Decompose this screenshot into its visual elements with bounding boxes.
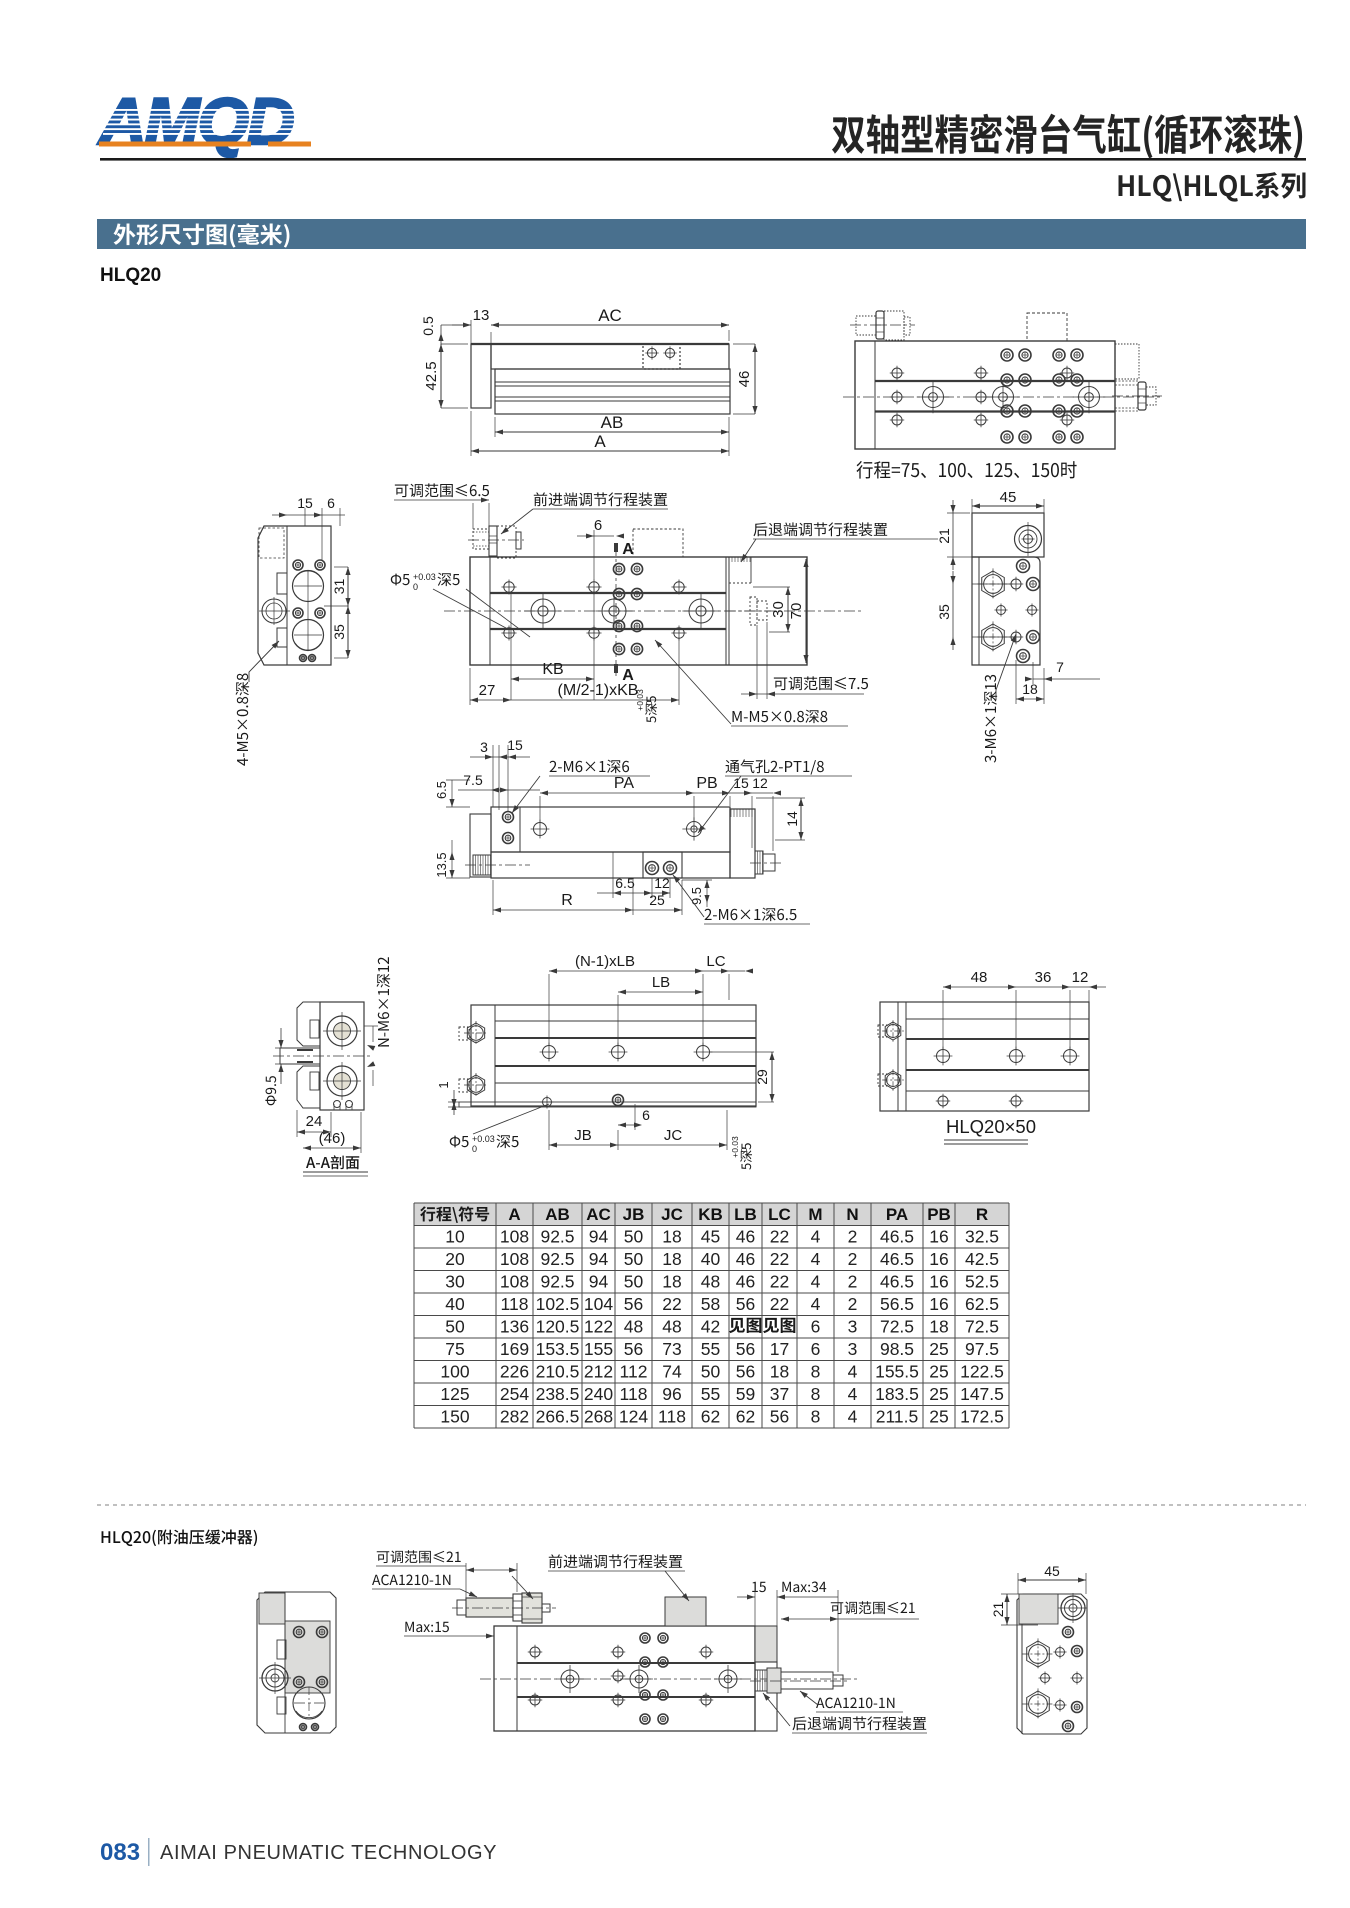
D2 socket screws bbox=[1001, 349, 1013, 361]
svg-text:73: 73 bbox=[662, 1339, 681, 1359]
D6 left rod bbox=[473, 855, 491, 875]
svg-text:40: 40 bbox=[701, 1249, 721, 1269]
D7 left upper guide bbox=[297, 1002, 320, 1046]
svg-text:18: 18 bbox=[929, 1317, 948, 1337]
svg-text:12: 12 bbox=[752, 775, 768, 791]
svg-text:LB: LB bbox=[652, 974, 670, 991]
svg-text:56: 56 bbox=[736, 1339, 755, 1359]
svg-text:29: 29 bbox=[754, 1069, 770, 1085]
svg-text:0: 0 bbox=[413, 582, 418, 592]
section bar text bbox=[114, 223, 290, 247]
svg-text:112: 112 bbox=[620, 1362, 648, 1382]
svg-text:46: 46 bbox=[736, 1249, 755, 1269]
svg-text:94: 94 bbox=[589, 1227, 609, 1247]
svg-text:21: 21 bbox=[936, 528, 952, 544]
D12 dim 21 bbox=[1006, 1594, 1008, 1625]
D8 screws bbox=[543, 1046, 556, 1059]
D8 body bbox=[471, 1005, 756, 1106]
D11 label ACA L bbox=[372, 1575, 450, 1586]
svg-text:211.5: 211.5 bbox=[876, 1407, 919, 1427]
D10 gray blocks bbox=[259, 1593, 285, 1624]
svg-text:+0.03: +0.03 bbox=[472, 1134, 495, 1144]
D8 dim 1 bbox=[453, 1090, 455, 1115]
D7 left lower guide bbox=[297, 1066, 320, 1108]
svg-text:118: 118 bbox=[620, 1384, 648, 1404]
svg-text:LB: LB bbox=[734, 1205, 757, 1224]
D10 bottom screws bbox=[300, 1724, 307, 1731]
D5 socket screws bbox=[1017, 560, 1030, 573]
D10 bore circle bbox=[293, 1687, 325, 1719]
svg-text:PB: PB bbox=[927, 1205, 951, 1224]
svg-text:48: 48 bbox=[971, 969, 988, 986]
svg-text:92.5: 92.5 bbox=[540, 1227, 574, 1247]
D9 body bbox=[880, 1002, 1089, 1111]
svg-text:55: 55 bbox=[701, 1384, 720, 1404]
svg-text:6: 6 bbox=[811, 1317, 821, 1337]
D7 bores with cores bbox=[327, 1016, 357, 1046]
D8 dim JB bbox=[549, 1144, 618, 1146]
D1 dim A bbox=[471, 450, 729, 452]
D2 centerline bbox=[843, 396, 1162, 398]
svg-text:150: 150 bbox=[440, 1407, 469, 1427]
svg-text:238.5: 238.5 bbox=[536, 1384, 580, 1404]
D5 label 3-M6 bbox=[984, 675, 998, 763]
svg-text:98.5: 98.5 bbox=[880, 1339, 914, 1359]
svg-text:45: 45 bbox=[701, 1227, 720, 1247]
D4 label M-M5 bbox=[733, 710, 828, 724]
svg-text:PB: PB bbox=[696, 775, 717, 792]
svg-text:4: 4 bbox=[848, 1407, 858, 1427]
svg-text:94: 94 bbox=[589, 1272, 609, 1292]
D12 outline bbox=[1017, 1594, 1087, 1734]
D4 targets bbox=[531, 599, 555, 623]
svg-text:136: 136 bbox=[500, 1317, 529, 1337]
svg-text:56: 56 bbox=[770, 1407, 789, 1427]
svg-text:153.5: 153.5 bbox=[536, 1339, 580, 1359]
svg-text:M: M bbox=[808, 1205, 822, 1224]
svg-text:240: 240 bbox=[584, 1384, 613, 1404]
D4 section line A-A bbox=[615, 546, 617, 676]
svg-text:102.5: 102.5 bbox=[536, 1294, 580, 1314]
D5 dim 45 bbox=[972, 505, 1044, 507]
D6 label 2-M6x1s6 bbox=[550, 760, 629, 774]
D10 outline bbox=[257, 1592, 336, 1733]
svg-text:108: 108 bbox=[500, 1227, 529, 1247]
svg-text:18: 18 bbox=[770, 1362, 789, 1382]
D5 dim 18 bbox=[1016, 698, 1044, 700]
svg-text:25: 25 bbox=[929, 1339, 948, 1359]
svg-text:PA: PA bbox=[614, 775, 634, 792]
D12 hex bolts bbox=[1027, 1641, 1050, 1667]
svg-text:0.5: 0.5 bbox=[420, 316, 436, 336]
svg-text:1: 1 bbox=[436, 1081, 451, 1088]
D6 dim 25 bbox=[633, 909, 682, 911]
svg-text:32.5: 32.5 bbox=[965, 1227, 999, 1247]
D11 gray right block bbox=[755, 1626, 777, 1662]
svg-text:2: 2 bbox=[848, 1249, 858, 1269]
D8 left bolts bbox=[467, 1023, 484, 1043]
svg-text:58: 58 bbox=[701, 1294, 720, 1314]
svg-text:97.5: 97.5 bbox=[965, 1339, 999, 1359]
D11 label Max15 bbox=[405, 1622, 449, 1632]
svg-text:122: 122 bbox=[584, 1317, 613, 1337]
D11 gray port block bbox=[665, 1597, 706, 1626]
D7 caption A-A bbox=[306, 1155, 359, 1169]
svg-text:6.5: 6.5 bbox=[434, 781, 449, 799]
D6 screws bbox=[503, 812, 514, 823]
D2 caption bbox=[856, 461, 1076, 479]
D7 dim 24 bbox=[297, 1131, 331, 1133]
svg-text:2: 2 bbox=[848, 1294, 858, 1314]
D7 main block bbox=[320, 1002, 364, 1110]
D10 screws bbox=[294, 1627, 305, 1638]
svg-text:45: 45 bbox=[1044, 1563, 1060, 1579]
svg-text:31: 31 bbox=[331, 579, 347, 595]
D10 buffer circle bbox=[262, 1665, 288, 1691]
D3 end view outline bbox=[258, 526, 331, 665]
svg-text:AIMAI PNEUMATIC TECHNOLOGY: AIMAI PNEUMATIC TECHNOLOGY bbox=[160, 1842, 497, 1864]
svg-text:6.5: 6.5 bbox=[615, 875, 635, 891]
svg-text:(M/2-1)xKB: (M/2-1)xKB bbox=[558, 682, 639, 699]
D4 main body bbox=[470, 557, 807, 665]
D11 shock absorber right bbox=[755, 1670, 767, 1691]
D9 dim 48 bbox=[943, 986, 1016, 988]
svg-text:75: 75 bbox=[445, 1339, 464, 1359]
D3 dim 31 bbox=[347, 567, 349, 606]
svg-text:46: 46 bbox=[736, 371, 753, 388]
svg-text:282: 282 bbox=[500, 1407, 529, 1427]
svg-text:12: 12 bbox=[654, 875, 670, 891]
svg-text:10: 10 bbox=[445, 1227, 465, 1247]
page title bbox=[832, 114, 1302, 159]
svg-text:JB: JB bbox=[574, 1127, 592, 1144]
D11 body bbox=[494, 1626, 755, 1731]
svg-text:27: 27 bbox=[479, 682, 496, 699]
svg-text:169: 169 bbox=[500, 1339, 529, 1359]
svg-text:HLQ20: HLQ20 bbox=[100, 265, 161, 286]
svg-text:268: 268 bbox=[584, 1407, 613, 1427]
D3 screws bbox=[293, 560, 303, 570]
D8 dim LB bbox=[618, 991, 703, 993]
D4 dim 30 bbox=[787, 587, 789, 632]
D8 dim N1LB bbox=[549, 970, 703, 972]
D3 dim 35 bbox=[347, 606, 349, 658]
svg-text:4: 4 bbox=[811, 1294, 821, 1314]
svg-text:7: 7 bbox=[1056, 659, 1064, 675]
D9 left bolts bbox=[885, 1022, 901, 1040]
svg-text:42.5: 42.5 bbox=[965, 1249, 999, 1269]
svg-text:KB: KB bbox=[542, 661, 563, 678]
svg-text:22: 22 bbox=[662, 1294, 681, 1314]
D6 dim 6.5v bbox=[451, 780, 453, 807]
D1 dim 42.5 bbox=[440, 344, 442, 408]
D6 dim 3 15 bbox=[492, 745, 494, 807]
svg-text:104: 104 bbox=[584, 1294, 613, 1314]
svg-text:6: 6 bbox=[811, 1339, 821, 1359]
D6 label vent bbox=[726, 759, 824, 774]
D4 dim 6 bbox=[577, 535, 614, 537]
D4 dim 70 bbox=[805, 559, 807, 663]
D7 dim phi95 bbox=[280, 1028, 282, 1048]
D7 label N-M6 bbox=[377, 957, 391, 1046]
svg-text:21: 21 bbox=[990, 1602, 1006, 1618]
D6 bottom block bbox=[643, 852, 682, 878]
D5 dim 7 bbox=[1033, 678, 1100, 680]
svg-text:118: 118 bbox=[501, 1294, 529, 1314]
D4 depth note rot bbox=[645, 696, 657, 722]
svg-text:56: 56 bbox=[736, 1294, 755, 1314]
svg-text:42.5: 42.5 bbox=[423, 361, 440, 390]
D2 left adjuster bbox=[856, 316, 876, 335]
svg-text:AC: AC bbox=[586, 1205, 611, 1224]
svg-text:72.5: 72.5 bbox=[965, 1317, 999, 1337]
D2 guide rod targets bbox=[923, 387, 944, 408]
svg-text:42: 42 bbox=[701, 1317, 720, 1337]
svg-text:70: 70 bbox=[788, 603, 805, 620]
dashed separator bbox=[97, 1504, 1306, 1506]
svg-text:46.5: 46.5 bbox=[880, 1249, 914, 1269]
svg-text:PA: PA bbox=[886, 1205, 908, 1224]
svg-text:4: 4 bbox=[811, 1249, 821, 1269]
svg-text:6: 6 bbox=[327, 495, 335, 511]
D5 dim 35 bbox=[952, 571, 954, 650]
svg-text:A: A bbox=[508, 1205, 520, 1224]
D11 label front adj bbox=[549, 1554, 682, 1568]
D8 dim 6 bbox=[618, 1124, 635, 1126]
svg-text:94: 94 bbox=[589, 1249, 609, 1269]
svg-text:HLQ20×50: HLQ20×50 bbox=[946, 1116, 1036, 1137]
D11 label rear adj bbox=[792, 1716, 926, 1730]
D5 hex bolts bbox=[982, 571, 1005, 597]
D5 plus screws bbox=[1011, 579, 1021, 589]
svg-text:46: 46 bbox=[736, 1272, 755, 1292]
svg-text:50: 50 bbox=[624, 1272, 644, 1292]
svg-text:118: 118 bbox=[658, 1407, 686, 1427]
svg-text:083: 083 bbox=[100, 1839, 140, 1866]
svg-text:2: 2 bbox=[848, 1227, 858, 1247]
D6 dim PA bbox=[540, 792, 694, 794]
svg-text:45: 45 bbox=[1000, 489, 1017, 506]
svg-text:25: 25 bbox=[649, 892, 665, 908]
svg-text:22: 22 bbox=[770, 1272, 789, 1292]
svg-text:22: 22 bbox=[770, 1227, 789, 1247]
svg-text:15: 15 bbox=[297, 495, 313, 511]
svg-text:3: 3 bbox=[480, 739, 488, 755]
svg-text:96: 96 bbox=[662, 1384, 681, 1404]
svg-text:17: 17 bbox=[770, 1339, 789, 1359]
D4 front adjuster bbox=[473, 529, 489, 549]
svg-text:210.5: 210.5 bbox=[536, 1362, 580, 1382]
svg-text:48: 48 bbox=[662, 1317, 681, 1337]
D8 dim 29 bbox=[771, 1052, 773, 1102]
D6 dim 13.5 bbox=[451, 840, 453, 878]
D7 piston rod bbox=[280, 1048, 320, 1064]
svg-text:172.5: 172.5 bbox=[960, 1407, 1004, 1427]
svg-text:254: 254 bbox=[500, 1384, 529, 1404]
D6 dim 6.5b bbox=[597, 892, 652, 894]
D9 dim 12 bbox=[1070, 986, 1089, 988]
D4 label adj range 7.5 bbox=[774, 676, 868, 690]
svg-text:16: 16 bbox=[929, 1227, 948, 1247]
D3 piston circle bbox=[262, 599, 286, 623]
svg-text:56.5: 56.5 bbox=[880, 1294, 914, 1314]
D4 socket screws bbox=[613, 563, 624, 574]
svg-text:LC: LC bbox=[706, 953, 725, 970]
D1 dim 13 bbox=[470, 320, 472, 344]
svg-text:226: 226 bbox=[500, 1362, 529, 1382]
svg-text:4: 4 bbox=[848, 1384, 858, 1404]
svg-text:50: 50 bbox=[445, 1317, 465, 1337]
svg-text:6: 6 bbox=[594, 517, 602, 534]
D1 dim AB bbox=[495, 431, 729, 433]
D1 cylinder side view body bbox=[471, 344, 491, 408]
svg-text:JB: JB bbox=[623, 1205, 645, 1224]
svg-text:16: 16 bbox=[929, 1249, 948, 1269]
D3 label 4-M5 bbox=[236, 673, 250, 765]
svg-text:15: 15 bbox=[507, 737, 523, 753]
svg-text:108: 108 bbox=[500, 1272, 529, 1292]
svg-text:13: 13 bbox=[473, 307, 490, 324]
svg-text:JC: JC bbox=[664, 1127, 683, 1144]
svg-text:A: A bbox=[594, 432, 606, 451]
svg-text:72.5: 72.5 bbox=[880, 1317, 914, 1337]
D4 label adj range 6.5 bbox=[395, 483, 489, 497]
svg-text:16: 16 bbox=[929, 1272, 948, 1292]
svg-text:46.5: 46.5 bbox=[880, 1227, 914, 1247]
svg-text:46: 46 bbox=[736, 1227, 755, 1247]
svg-text:+0.03: +0.03 bbox=[413, 572, 436, 582]
svg-text:3: 3 bbox=[848, 1339, 858, 1359]
D4 label front adj bbox=[534, 492, 667, 506]
svg-text:R: R bbox=[561, 892, 573, 909]
D4 label rear adj bbox=[753, 522, 887, 536]
D1 dim 46 bbox=[754, 344, 756, 414]
D6 dim R bbox=[493, 909, 633, 911]
D5 lower panel bbox=[972, 557, 1040, 665]
svg-text:JC: JC bbox=[661, 1205, 683, 1224]
D7 dim 46 bbox=[303, 1147, 361, 1149]
svg-text:0: 0 bbox=[739, 1147, 749, 1152]
D6 right rod bbox=[755, 851, 763, 874]
svg-text:36: 36 bbox=[1035, 969, 1052, 986]
svg-text:62.5: 62.5 bbox=[965, 1294, 999, 1314]
svg-text:30: 30 bbox=[770, 601, 787, 618]
footer divider bbox=[148, 1838, 150, 1866]
D12 screws bbox=[1063, 1627, 1074, 1638]
svg-text:37: 37 bbox=[770, 1384, 789, 1404]
D9 dim 36 bbox=[1016, 986, 1070, 988]
D11 centerline bbox=[480, 1678, 860, 1680]
series subtitle bbox=[1119, 172, 1306, 202]
svg-text:2: 2 bbox=[848, 1272, 858, 1292]
svg-text:LC: LC bbox=[768, 1205, 791, 1224]
svg-text:25: 25 bbox=[929, 1384, 948, 1404]
svg-text:92.5: 92.5 bbox=[540, 1272, 574, 1292]
D5 top circle bbox=[1015, 526, 1042, 553]
D6 dim 14 bbox=[800, 798, 802, 840]
svg-text:(N-1)xLB: (N-1)xLB bbox=[575, 953, 635, 970]
svg-text:155.5: 155.5 bbox=[875, 1362, 919, 1382]
D2 top view body bbox=[855, 341, 1115, 449]
AMQD logo bbox=[97, 84, 311, 158]
D12 dim 45 bbox=[1018, 1579, 1086, 1581]
svg-text:50: 50 bbox=[624, 1249, 644, 1269]
svg-text:AB: AB bbox=[601, 413, 624, 432]
D6 label 2-M6x1s65 bbox=[705, 908, 797, 922]
svg-text:AC: AC bbox=[598, 306, 622, 325]
D3 bore circles bbox=[293, 571, 324, 602]
svg-text:30: 30 bbox=[445, 1272, 465, 1292]
svg-text:147.5: 147.5 bbox=[960, 1384, 1004, 1404]
D12 gray block bbox=[1019, 1594, 1058, 1624]
svg-text:22: 22 bbox=[770, 1294, 789, 1314]
D4 plus screws bbox=[504, 582, 514, 592]
svg-text:4: 4 bbox=[848, 1362, 858, 1382]
svg-text:56: 56 bbox=[624, 1294, 643, 1314]
svg-text:13.5: 13.5 bbox=[434, 852, 449, 877]
D11 dim 15 Max34 bbox=[752, 1582, 766, 1592]
svg-text:R: R bbox=[976, 1205, 988, 1224]
D7 bottom screws bbox=[334, 1101, 341, 1108]
svg-text:N: N bbox=[846, 1205, 858, 1224]
svg-text:18: 18 bbox=[662, 1249, 681, 1269]
D9 screws bbox=[937, 1050, 950, 1063]
svg-text:AMQD: AMQD bbox=[97, 84, 293, 158]
svg-text:50: 50 bbox=[701, 1362, 721, 1382]
svg-text:100: 100 bbox=[440, 1362, 469, 1382]
svg-text:18: 18 bbox=[662, 1227, 681, 1247]
svg-text:(46): (46) bbox=[319, 1130, 346, 1147]
svg-text:183.5: 183.5 bbox=[875, 1384, 919, 1404]
svg-text:16: 16 bbox=[929, 1294, 948, 1314]
D5 top block bbox=[972, 513, 1044, 557]
D8 dim JC bbox=[618, 1144, 727, 1146]
svg-text:62: 62 bbox=[701, 1407, 720, 1427]
svg-text:40: 40 bbox=[445, 1294, 465, 1314]
svg-text:62: 62 bbox=[736, 1407, 755, 1427]
D6 dim 9.5 bbox=[706, 880, 708, 907]
D11 shock absorber left bbox=[457, 1600, 466, 1615]
svg-text:7.5: 7.5 bbox=[463, 772, 483, 788]
svg-text:+0.03: +0.03 bbox=[635, 689, 645, 711]
D1 sensor block bbox=[643, 344, 680, 369]
svg-text:4: 4 bbox=[811, 1227, 821, 1247]
svg-text:8: 8 bbox=[811, 1362, 821, 1382]
svg-text:50: 50 bbox=[624, 1227, 644, 1247]
D8 bottom lip bbox=[459, 1102, 756, 1107]
svg-text:8: 8 bbox=[811, 1384, 821, 1404]
D11 label range21L bbox=[377, 1550, 461, 1563]
svg-text:6: 6 bbox=[642, 1107, 650, 1123]
svg-text:124: 124 bbox=[619, 1407, 648, 1427]
svg-text:59: 59 bbox=[736, 1384, 755, 1404]
svg-text:+0.03: +0.03 bbox=[730, 1136, 740, 1158]
svg-text:46.5: 46.5 bbox=[880, 1272, 914, 1292]
header rule bbox=[100, 158, 1306, 161]
svg-text:52.5: 52.5 bbox=[965, 1272, 999, 1292]
svg-text:20: 20 bbox=[445, 1249, 465, 1269]
svg-text:25: 25 bbox=[929, 1407, 948, 1427]
D4 dim M2KB bbox=[511, 699, 679, 701]
section bar bbox=[97, 219, 1306, 249]
HLQ20 buffer label bbox=[102, 1529, 258, 1546]
svg-text:56: 56 bbox=[624, 1339, 643, 1359]
svg-text:3: 3 bbox=[848, 1317, 858, 1337]
D2 plus screws bbox=[892, 368, 902, 378]
D11 label ACA R bbox=[816, 1698, 894, 1709]
svg-text:122.5: 122.5 bbox=[960, 1362, 1004, 1382]
D6 dim 12b bbox=[652, 892, 670, 894]
